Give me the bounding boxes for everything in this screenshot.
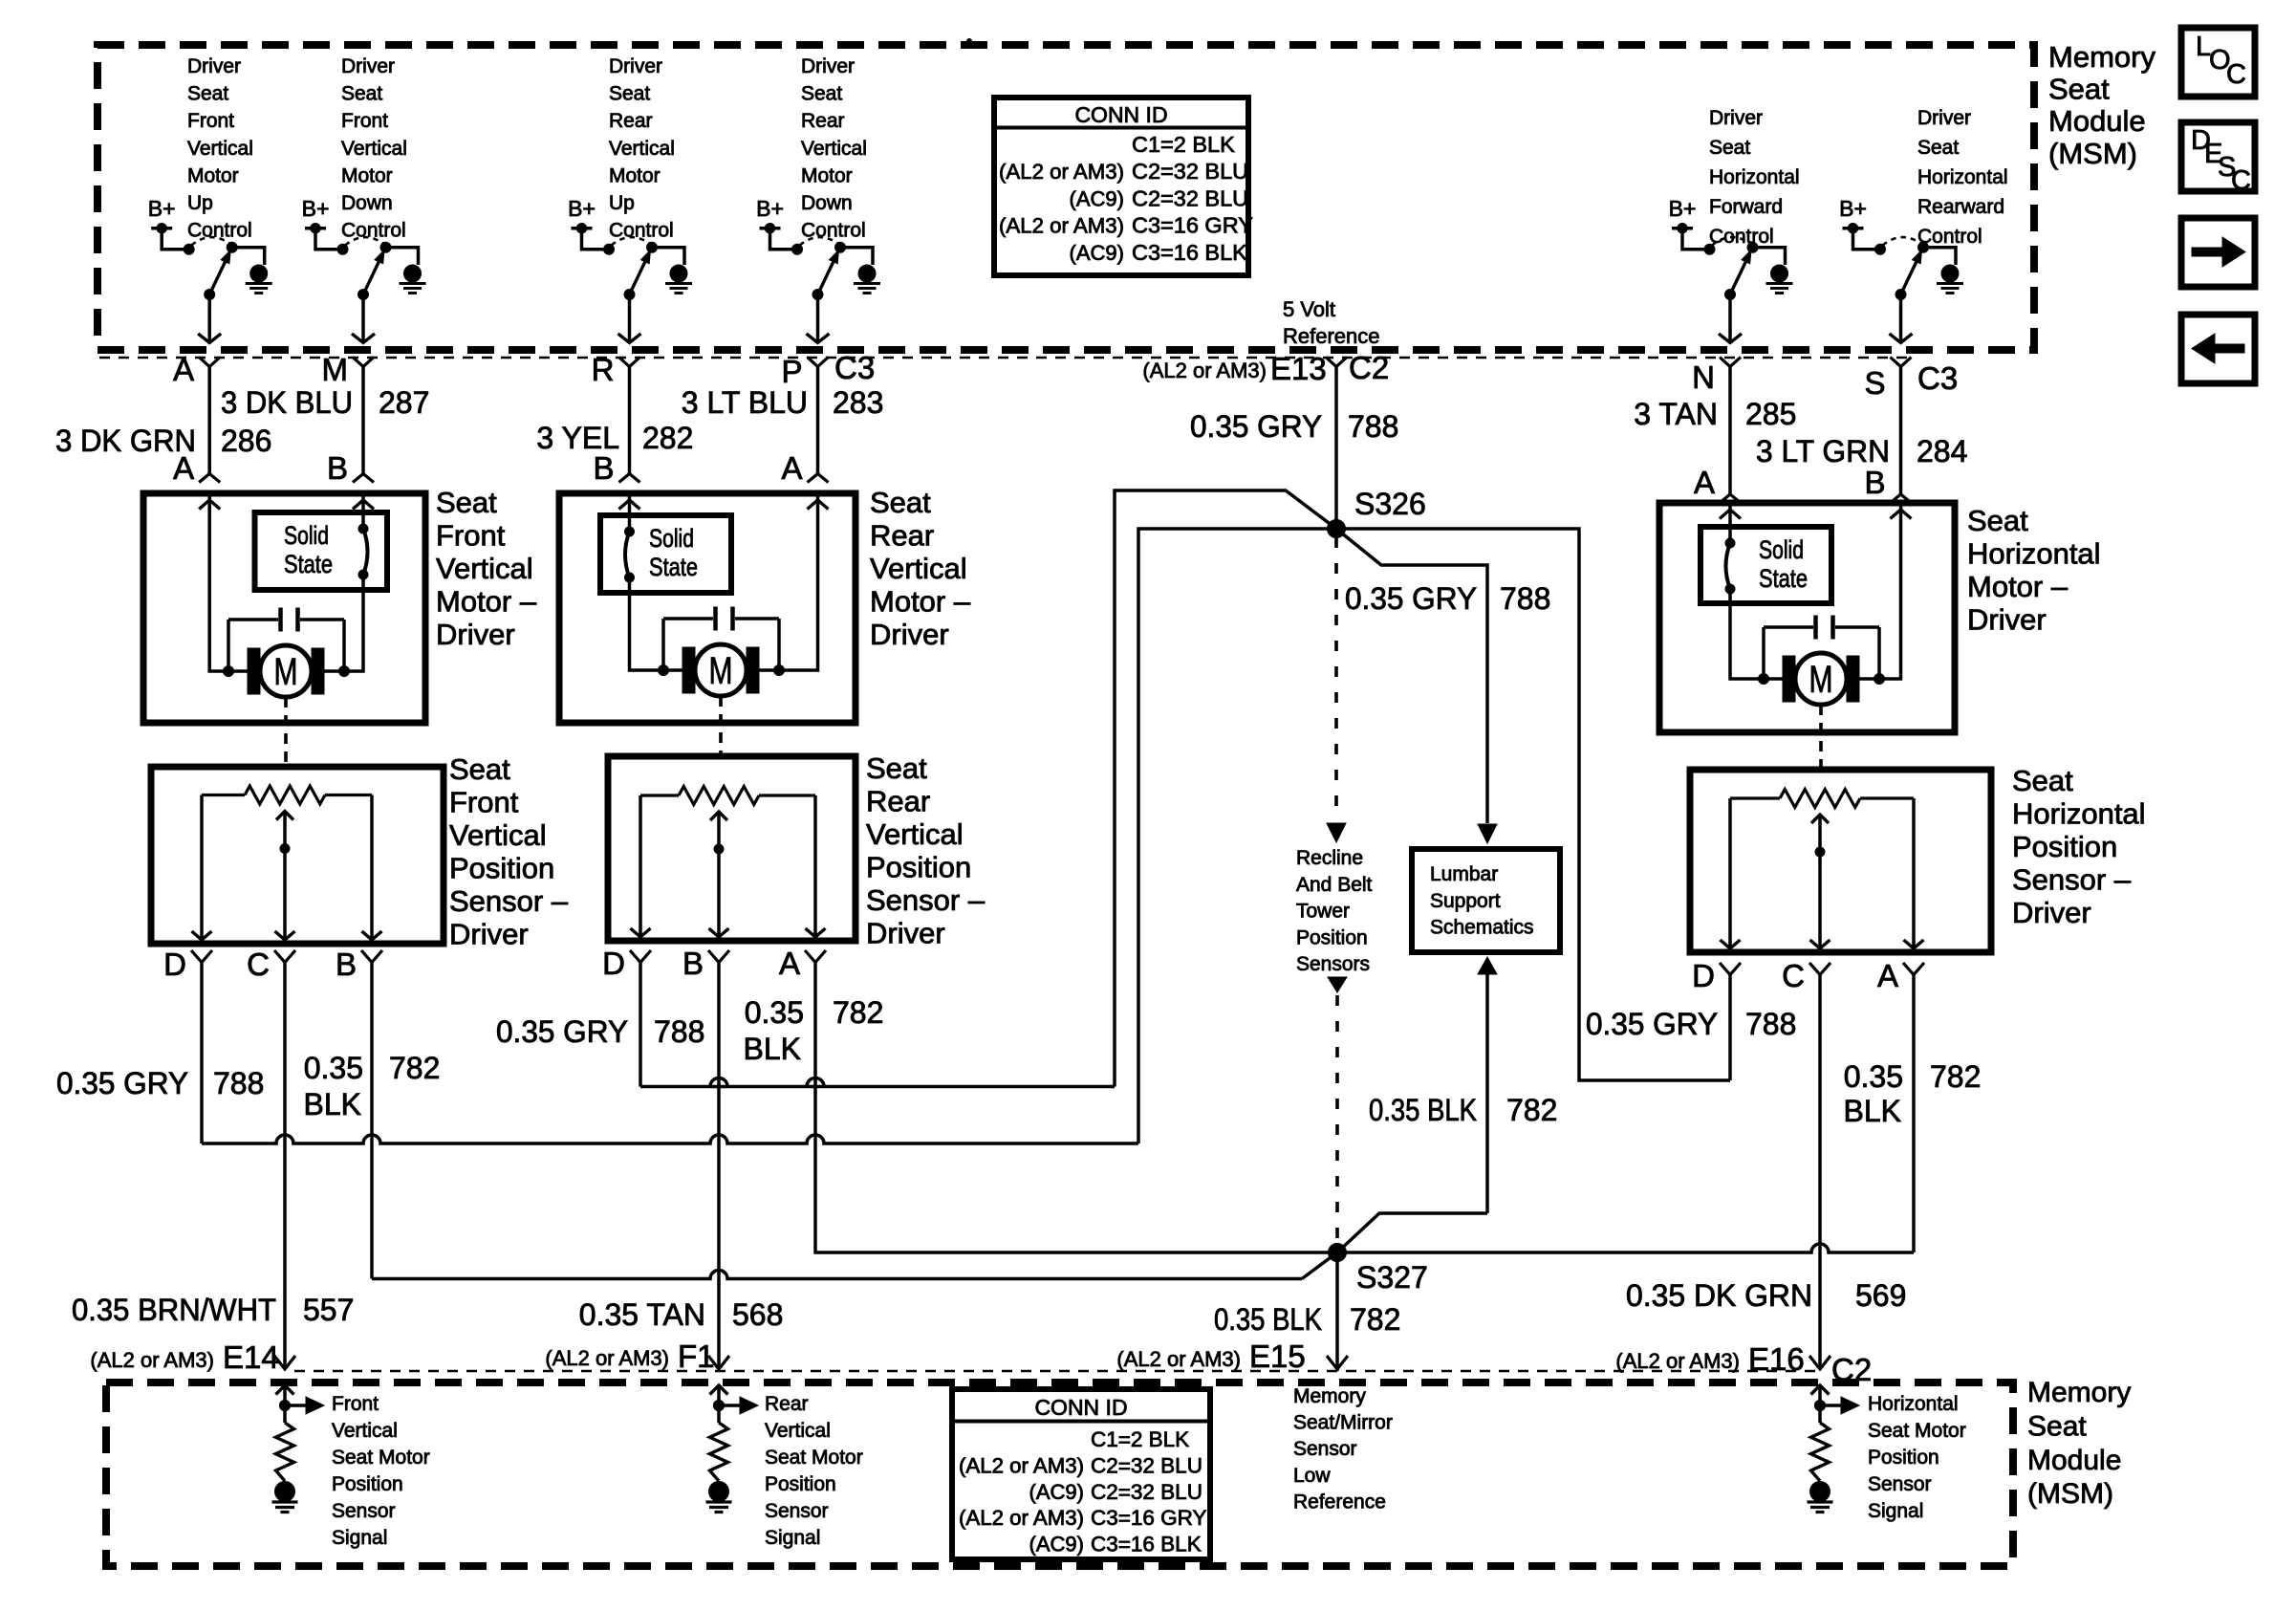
Seat Front Vertical Motor - Driver box — [143, 493, 425, 723]
svg-text:B+: B+ — [756, 196, 784, 221]
svg-text:A: A — [173, 352, 194, 387]
wire right sensor C to E16 (0.35 DK GRN 569) — [1818, 975, 1822, 1369]
potentiometer — [1730, 796, 1780, 799]
wire to ground — [1923, 248, 1956, 265]
svg-text:Horizontal: Horizontal — [1917, 166, 2008, 188]
svg-text:Seat: Seat — [609, 83, 650, 105]
pin E16 / C2 — [1809, 1356, 1830, 1369]
svg-text:E16: E16 — [1748, 1341, 1805, 1377]
svg-text:Vertical: Vertical — [609, 138, 675, 160]
svg-text:Schematics: Schematics — [1430, 917, 1534, 939]
svg-text:Seat: Seat — [187, 83, 228, 105]
svg-text:(MSM): (MSM) — [2048, 137, 2137, 170]
sensor pin B x=389 — [361, 950, 382, 963]
svg-text:Signal: Signal — [765, 1527, 820, 1549]
sensor pin A x=2002 — [1903, 963, 1924, 975]
dashed wire to S327 — [1335, 995, 1339, 1244]
svg-text:R: R — [592, 352, 615, 387]
svg-text:Seat: Seat — [801, 83, 842, 105]
svg-text:Low: Low — [1293, 1465, 1331, 1487]
wire S327 to right sensor A — [1337, 1244, 1914, 1252]
svg-text:Sensor: Sensor — [1868, 1473, 1932, 1495]
switch dashed arc — [345, 237, 384, 245]
svg-text:Driver: Driver — [866, 917, 945, 950]
sensor resistor at x=752 — [717, 1385, 721, 1404]
svg-text:M: M — [1809, 659, 1833, 701]
svg-text:State: State — [1759, 564, 1808, 593]
wire col x=1810 — [1728, 367, 1732, 495]
ground — [858, 265, 876, 282]
wire to ground — [232, 248, 265, 265]
wire middle sensor B to F1 (0.35 TAN 568) — [717, 963, 721, 1369]
svg-text:Memory: Memory — [2027, 1377, 2131, 1408]
svg-text:C2=32 BLU: C2=32 BLU — [1132, 185, 1248, 210]
svg-text:Vertical: Vertical — [765, 1420, 831, 1442]
sensor pin D x=1810 — [1720, 963, 1741, 975]
Seat Rear Vertical Position Sensor - Driver box — [608, 756, 856, 941]
svg-text:Position: Position — [1868, 1447, 1939, 1469]
svg-text:Forward: Forward — [1709, 196, 1783, 218]
svg-text:Driver: Driver — [1967, 603, 2047, 637]
svg-text:Solid: Solid — [649, 524, 694, 553]
solid state box — [255, 512, 388, 590]
svg-text:A: A — [779, 946, 800, 981]
svg-text:B: B — [1864, 465, 1885, 500]
svg-text:3 TAN: 3 TAN — [1634, 397, 1718, 431]
svg-text:Rear: Rear — [870, 519, 934, 553]
switch pivot — [812, 290, 823, 300]
svg-text:And Belt: And Belt — [1296, 874, 1373, 896]
svg-text:D: D — [1692, 958, 1715, 993]
capacitor — [663, 617, 713, 620]
B+ terminal — [760, 229, 798, 250]
wiper — [717, 812, 721, 937]
svg-text:A: A — [1694, 465, 1715, 500]
wire to ground — [386, 248, 419, 265]
pin A — [199, 358, 220, 367]
svg-text:(AL2 or AM3): (AL2 or AM3) — [999, 160, 1124, 184]
CONN ID table bottom — [952, 1389, 1210, 1559]
svg-text:Vertical: Vertical — [866, 817, 964, 851]
LOC icon box — [2181, 28, 2255, 97]
svg-text:(AC9): (AC9) — [1029, 1533, 1084, 1557]
ground — [250, 265, 268, 282]
B+ terminal — [1672, 229, 1710, 250]
svg-text:CONN ID: CONN ID — [1034, 1395, 1127, 1420]
svg-text:S: S — [1864, 365, 1885, 401]
svg-text:Control: Control — [341, 220, 406, 242]
svg-text:M: M — [274, 651, 298, 693]
wire middle sensor A to S327 — [815, 963, 1337, 1253]
svg-text:Horizontal: Horizontal — [1967, 537, 2101, 571]
wire to connector — [207, 294, 211, 341]
svg-text:(AL2 or AM3): (AL2 or AM3) — [1615, 1349, 1740, 1373]
pin M — [353, 358, 374, 367]
svg-text:Seat: Seat — [436, 486, 497, 519]
wire col x=1988.5 — [1899, 367, 1903, 495]
svg-text:Motor: Motor — [341, 164, 393, 186]
switch contact right — [227, 242, 237, 252]
svg-text:(AL2 or AM3): (AL2 or AM3) — [1142, 359, 1267, 382]
wire pin A side — [209, 493, 248, 671]
svg-text:Rear: Rear — [866, 785, 930, 818]
switch lever — [363, 262, 379, 294]
svg-text:(AL2 or AM3): (AL2 or AM3) — [959, 1453, 1084, 1477]
solid state box — [600, 515, 731, 593]
sensor resistor at x=1904 — [1818, 1385, 1822, 1404]
svg-text:Sensor –: Sensor – — [2012, 863, 2132, 897]
svg-text:Front: Front — [341, 110, 388, 132]
svg-text:B+: B+ — [302, 196, 330, 221]
svg-text:Lumbar: Lumbar — [1430, 863, 1498, 885]
ground — [1771, 265, 1788, 282]
Seat Front Vertical Position Sensor - Driver box — [151, 767, 444, 944]
switch lever — [1730, 262, 1745, 294]
svg-text:State: State — [649, 553, 698, 581]
svg-text:B: B — [336, 947, 357, 982]
svg-text:0.35 GRY: 0.35 GRY — [1190, 409, 1322, 444]
switch lever — [630, 262, 645, 294]
switch pivot — [1895, 290, 1906, 300]
svg-text:C1=2 BLK: C1=2 BLK — [1132, 132, 1235, 157]
svg-text:Vertical: Vertical — [341, 138, 407, 160]
svg-text:Seat: Seat — [1709, 137, 1750, 159]
svg-text:Down: Down — [341, 192, 393, 214]
svg-text:A: A — [173, 450, 194, 486]
svg-text:Vertical: Vertical — [801, 138, 867, 160]
svg-text:A: A — [1877, 958, 1898, 993]
sensor pin A x=853 — [805, 950, 826, 963]
wire through solid state — [361, 493, 365, 529]
svg-text:3 LT GRN: 3 LT GRN — [1756, 434, 1890, 468]
svg-text:0.35: 0.35 — [1844, 1059, 1903, 1094]
svg-text:Front: Front — [436, 519, 506, 553]
svg-text:788: 788 — [1745, 1007, 1796, 1041]
svg-text:Sensor –: Sensor – — [866, 883, 986, 917]
svg-text:C3: C3 — [1917, 360, 1958, 396]
left arrow icon box — [2181, 315, 2255, 383]
switch lever — [1901, 262, 1917, 294]
B+ terminal — [151, 229, 189, 250]
fleck — [967, 39, 972, 44]
svg-text:E13: E13 — [1270, 351, 1327, 386]
svg-text:Sensor –: Sensor – — [449, 884, 569, 918]
connector dashed line top — [99, 357, 1913, 359]
svg-text:0.35 GRY: 0.35 GRY — [496, 1014, 628, 1049]
wire to ground — [1753, 248, 1786, 265]
svg-text:287: 287 — [379, 385, 429, 420]
svg-text:Driver: Driver — [609, 55, 662, 77]
svg-text:C2=32 BLU: C2=32 BLU — [1091, 1480, 1202, 1504]
svg-text:782: 782 — [1506, 1093, 1557, 1127]
svg-text:C2=32 BLU: C2=32 BLU — [1091, 1453, 1202, 1477]
switch contact left — [184, 244, 194, 254]
svg-text:State: State — [284, 550, 333, 578]
switch contact left — [792, 244, 803, 254]
svg-text:BLK: BLK — [1844, 1094, 1901, 1128]
svg-text:Position: Position — [1296, 926, 1368, 948]
svg-text:Driver: Driver — [2012, 896, 2091, 929]
svg-text:Driver: Driver — [341, 55, 395, 77]
dashed link horizontal — [1819, 705, 1823, 768]
svg-text:Horizontal: Horizontal — [1868, 1393, 1959, 1415]
svg-text:Driver: Driver — [1917, 107, 1971, 129]
svg-text:C1=2 BLK: C1=2 BLK — [1091, 1427, 1189, 1451]
Lumbar bottom wire to S327 — [1478, 957, 1497, 974]
dashed link front vertical — [284, 697, 288, 765]
svg-text:Rear: Rear — [801, 110, 845, 132]
svg-text:0.35 GRY: 0.35 GRY — [1345, 581, 1477, 616]
svg-text:Front: Front — [187, 110, 234, 132]
pin N — [1720, 358, 1741, 367]
sensor pin D x=211 — [191, 950, 212, 963]
svg-text:Control: Control — [187, 220, 252, 242]
svg-text:B: B — [682, 946, 704, 981]
svg-text:Vertical: Vertical — [449, 818, 547, 852]
svg-text:Signal: Signal — [332, 1527, 387, 1549]
switch lever — [209, 262, 225, 294]
capacitor — [228, 618, 278, 621]
svg-text:0.35 GRY: 0.35 GRY — [56, 1066, 188, 1100]
switch contact right — [835, 242, 846, 252]
svg-text:Vertical: Vertical — [436, 552, 533, 585]
Memory Seat Module top dashed box — [97, 45, 2034, 350]
svg-text:(AL2 or AM3): (AL2 or AM3) — [1116, 1347, 1241, 1371]
svg-text:Sensor: Sensor — [332, 1500, 396, 1522]
svg-text:D: D — [163, 947, 186, 982]
svg-text:Solid: Solid — [284, 521, 329, 550]
svg-text:A: A — [781, 450, 802, 486]
svg-text:788: 788 — [213, 1066, 264, 1100]
svg-text:S327: S327 — [1356, 1260, 1428, 1295]
switch pivot — [358, 290, 369, 300]
svg-text:Seat: Seat — [1967, 504, 2028, 537]
svg-text:Control: Control — [609, 220, 674, 242]
svg-text:Front: Front — [449, 786, 519, 819]
svg-text:Position: Position — [449, 852, 554, 885]
svg-text:782: 782 — [833, 995, 883, 1030]
svg-text:Up: Up — [187, 192, 213, 214]
switch pivot — [1725, 290, 1736, 300]
svg-text:Rear: Rear — [609, 110, 653, 132]
wire E13->S326 — [1334, 367, 1338, 530]
dashed link rear vertical — [719, 696, 723, 754]
svg-text:(AC9): (AC9) — [1070, 241, 1124, 265]
CONN ID table top — [994, 98, 1248, 275]
wire to connector — [1899, 294, 1903, 341]
motor M — [682, 647, 695, 693]
svg-text:0.35 GRY: 0.35 GRY — [1586, 1007, 1718, 1041]
svg-text:Seat Motor: Seat Motor — [1868, 1420, 1966, 1442]
svg-text:Sensors: Sensors — [1296, 953, 1370, 975]
off-page triangle — [1328, 977, 1347, 992]
svg-text:0.35 BLK: 0.35 BLK — [1369, 1093, 1477, 1127]
svg-text:Driver: Driver — [801, 55, 855, 77]
svg-text:0.35 BRN/WHT: 0.35 BRN/WHT — [72, 1293, 276, 1327]
svg-text:M: M — [322, 352, 349, 387]
node S327 — [1329, 1244, 1347, 1262]
svg-text:C: C — [2226, 59, 2246, 90]
switch dashed arc — [1712, 237, 1751, 245]
svg-text:(AC9): (AC9) — [1029, 1480, 1084, 1504]
pin E14 — [274, 1356, 295, 1369]
wire through solid state — [1728, 503, 1732, 543]
svg-text:Solid: Solid — [1759, 535, 1804, 564]
svg-text:Rear: Rear — [765, 1393, 809, 1415]
switch contact left — [1875, 244, 1886, 254]
wire S327 to E15 — [1335, 1252, 1339, 1371]
svg-text:Vertical: Vertical — [187, 138, 253, 160]
switch contact left — [337, 244, 348, 254]
svg-text:Seat/Mirror: Seat/Mirror — [1293, 1412, 1393, 1434]
wiper — [283, 812, 287, 941]
svg-text:0.35 BLK: 0.35 BLK — [1214, 1302, 1322, 1337]
potentiometer — [202, 794, 245, 796]
wire left sensor B to S327 — [370, 963, 374, 1279]
sensor pin B x=752 — [708, 950, 729, 963]
svg-text:Position: Position — [332, 1473, 403, 1495]
svg-text:Reference: Reference — [1283, 324, 1380, 348]
svg-text:(AL2 or AM3): (AL2 or AM3) — [90, 1348, 214, 1372]
svg-text:C: C — [2231, 165, 2251, 196]
svg-text:788: 788 — [1348, 409, 1398, 444]
svg-text:B: B — [327, 450, 348, 486]
svg-text:S326: S326 — [1354, 487, 1426, 521]
svg-text:3 LT BLU: 3 LT BLU — [682, 385, 808, 420]
svg-text:Memory: Memory — [2048, 40, 2155, 74]
wire col x=380 — [361, 367, 365, 474]
svg-text:782: 782 — [389, 1051, 440, 1085]
svg-text:P: P — [781, 354, 802, 389]
svg-text:0.35: 0.35 — [745, 995, 804, 1030]
wire S326 right branch to right sensor D — [1336, 529, 1730, 1080]
wire to ground — [840, 248, 873, 265]
svg-text:Sensor: Sensor — [1293, 1438, 1357, 1460]
pin F1 — [708, 1356, 729, 1369]
svg-text:782: 782 — [1930, 1059, 1981, 1094]
switch dashed arc — [800, 237, 839, 245]
svg-text:Driver: Driver — [187, 55, 241, 77]
svg-text:Driver: Driver — [436, 618, 515, 651]
capacitor — [1764, 625, 1813, 629]
svg-text:Seat: Seat — [866, 751, 927, 785]
svg-text:Vertical: Vertical — [332, 1420, 398, 1442]
B+ terminal — [305, 229, 343, 250]
svg-text:Seat: Seat — [449, 752, 510, 786]
svg-text:Horizontal: Horizontal — [1709, 166, 1800, 188]
wiper — [1818, 815, 1822, 948]
svg-text:788: 788 — [1500, 581, 1550, 616]
motor M — [248, 648, 260, 694]
dashed wire S326 to recline sensors — [1334, 537, 1338, 820]
Seat Horizontal Position Sensor - Driver box — [1690, 770, 1991, 952]
svg-text:Rearward: Rearward — [1917, 196, 2004, 218]
svg-text:Module: Module — [2048, 104, 2146, 138]
svg-text:B+: B+ — [1669, 196, 1697, 221]
svg-text:Driver: Driver — [449, 918, 529, 951]
svg-text:283: 283 — [833, 385, 883, 420]
pin S — [1891, 358, 1912, 367]
sensor pin C x=1904 — [1809, 963, 1830, 975]
svg-text:Driver: Driver — [1709, 107, 1763, 129]
wire left sensor C to E14 (0.35 BRN/WHT 557) — [283, 963, 287, 1369]
switch contact left — [604, 244, 615, 254]
svg-text:C2=32 BLU: C2=32 BLU — [1132, 159, 1248, 184]
svg-text:E14: E14 — [223, 1339, 279, 1375]
svg-text:Reference: Reference — [1293, 1491, 1386, 1513]
svg-text:M: M — [709, 650, 733, 692]
right arrow icon box — [2181, 218, 2255, 287]
wire to ground — [652, 248, 684, 265]
svg-text:788: 788 — [654, 1014, 704, 1049]
svg-text:568: 568 — [732, 1297, 783, 1332]
svg-text:Memory: Memory — [1293, 1385, 1366, 1407]
wire to connector — [1728, 294, 1732, 341]
svg-text:C: C — [1782, 958, 1805, 993]
ground — [670, 265, 687, 282]
svg-text:284: 284 — [1917, 434, 1967, 468]
ground — [404, 265, 422, 282]
svg-text:282: 282 — [642, 421, 693, 455]
sensor resistor at x=298 — [283, 1385, 287, 1404]
svg-text:5 Volt: 5 Volt — [1283, 297, 1335, 321]
svg-text:Sensor: Sensor — [765, 1500, 829, 1522]
wire to connector — [816, 294, 820, 341]
wire pin A side — [759, 493, 818, 670]
switch dashed arc — [1883, 237, 1922, 245]
svg-text:3 DK BLU: 3 DK BLU — [221, 385, 353, 420]
potentiometer — [640, 794, 679, 796]
switch contact right — [1918, 242, 1929, 252]
svg-text:Up: Up — [609, 192, 635, 214]
svg-text:286: 286 — [221, 424, 271, 458]
svg-text:285: 285 — [1745, 397, 1796, 431]
svg-text:Seat Motor: Seat Motor — [765, 1447, 863, 1469]
switch contact right — [647, 242, 658, 252]
svg-text:Motor –: Motor – — [870, 585, 971, 619]
svg-text:Down: Down — [801, 192, 853, 214]
motor M — [1783, 656, 1795, 702]
svg-text:B+: B+ — [1839, 196, 1867, 221]
svg-text:C: C — [247, 947, 270, 982]
svg-text:C3=16 BLK: C3=16 BLK — [1091, 1533, 1202, 1557]
svg-text:Motor: Motor — [609, 164, 661, 186]
svg-text:Motor –: Motor – — [436, 585, 537, 619]
svg-text:Seat: Seat — [341, 83, 382, 105]
svg-text:B+: B+ — [148, 196, 176, 221]
pin E15 — [1327, 1356, 1348, 1369]
svg-text:Position: Position — [866, 851, 971, 884]
svg-text:Support: Support — [1430, 890, 1501, 912]
svg-text:Seat: Seat — [2027, 1410, 2087, 1442]
svg-text:Control: Control — [1709, 226, 1774, 248]
wire through solid state — [628, 493, 632, 532]
svg-text:Seat Motor: Seat Motor — [332, 1447, 430, 1469]
svg-text:782: 782 — [1350, 1302, 1400, 1337]
svg-text:Front: Front — [332, 1393, 379, 1415]
node S326 — [1328, 520, 1346, 538]
svg-text:Seat: Seat — [2048, 73, 2110, 106]
wire col x=855.5 — [816, 367, 820, 474]
svg-text:Seat: Seat — [1917, 137, 1959, 159]
Lumbar Support Schematics box — [1412, 849, 1560, 952]
sensor pin D x=670 — [630, 950, 651, 963]
ground — [1941, 265, 1959, 282]
wire S326 left branch to left sensor D — [1138, 529, 1336, 1143]
svg-text:C3=16 BLK: C3=16 BLK — [1132, 240, 1247, 265]
svg-text:Horizontal: Horizontal — [2012, 797, 2146, 831]
B+ terminal — [1843, 229, 1881, 250]
